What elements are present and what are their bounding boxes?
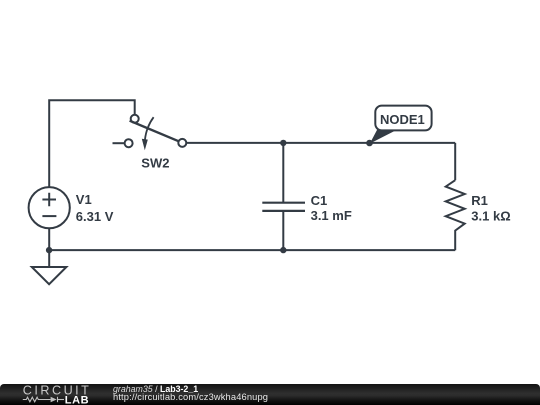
svg-text:LAB: LAB bbox=[65, 395, 89, 405]
svg-text:C1: C1 bbox=[311, 193, 328, 208]
svg-text:SW2: SW2 bbox=[141, 155, 169, 170]
svg-text:V1: V1 bbox=[76, 192, 92, 207]
svg-text:3.1 kΩ: 3.1 kΩ bbox=[471, 208, 510, 223]
svg-text:NODE1: NODE1 bbox=[380, 112, 425, 127]
svg-text:R1: R1 bbox=[471, 193, 488, 208]
svg-text:6.31 V: 6.31 V bbox=[76, 209, 114, 224]
svg-text:3.1 mF: 3.1 mF bbox=[311, 208, 352, 223]
